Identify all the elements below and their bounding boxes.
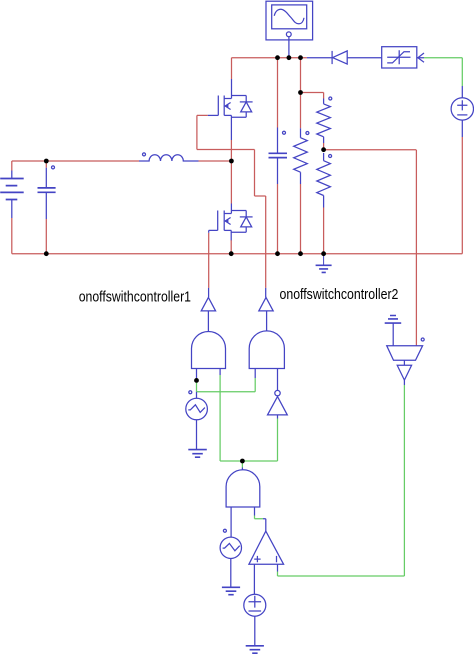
constant zero inverted ground: [385, 316, 402, 324]
capacitor C1 input: [38, 188, 56, 192]
node dot bottom rail ground: [321, 251, 326, 256]
wire lead sine source 1: [196, 392, 198, 450]
inductor L1: [139, 155, 199, 161]
wire lead R2: [323, 99, 325, 144]
wire R2 bottom to rail: [300, 184, 302, 254]
node dot bottom rail cap in: [44, 251, 49, 256]
wire battery top: [11, 161, 13, 171]
saturation block: [382, 47, 424, 68]
polarity marker input cap: [52, 166, 55, 169]
signal arrow up U1: [201, 297, 215, 311]
svg-text:onoffswitchcontroller2: onoffswitchcontroller2: [280, 286, 399, 303]
wire lead Q1 gate: [208, 114, 219, 116]
svg-text:onoffswithcontroller1: onoffswithcontroller1: [79, 288, 191, 305]
signal arrow down: [397, 365, 411, 380]
ground sine source 1: [188, 450, 207, 458]
polarity marker inductor: [143, 153, 146, 156]
resistor R2: [317, 104, 331, 137]
wire lead R3: [323, 153, 325, 208]
triangle wave source S2: [220, 537, 241, 558]
battery B1: [0, 179, 24, 200]
wire lead Q1 source: [230, 115, 232, 140]
node dot rail cap branch: [275, 55, 280, 60]
ground dc source V2: [246, 646, 264, 653]
wire lead and2 inputs: [255, 369, 277, 391]
wire lead and2 output: [265, 288, 268, 331]
node dot and3 output net: [240, 459, 245, 464]
wire output cap top branch: [277, 58, 279, 128]
wire lead sine source 2 bottom: [230, 559, 232, 588]
and gate U1: [192, 332, 226, 369]
wire lead not gate input: [277, 415, 279, 419]
wire divider mid node: [323, 143, 325, 150]
node dot bottom rail cap out: [275, 251, 280, 256]
comparator U5: [249, 531, 284, 564]
wire node to divider top: [301, 93, 324, 99]
wire lead Q2 source: [230, 230, 232, 240]
node dot bottom rail R1: [298, 251, 303, 256]
wire lead and3 input b: [255, 507, 266, 531]
polarity marker mux: [421, 338, 424, 341]
wire lead and1 output: [207, 288, 209, 331]
resistor R3: [317, 161, 331, 196]
mosfet Q2: [218, 211, 253, 233]
wire R3 bottom to rail: [323, 208, 325, 254]
wire lead and3 output: [241, 468, 243, 470]
wire input cap top: [45, 161, 47, 168]
wire lead mux output: [403, 360, 405, 365]
polarity marker sine source 2: [223, 529, 226, 532]
signal arrow up U2: [259, 297, 273, 311]
triangle wave source S1: [186, 398, 208, 420]
node dot rail resistor branch: [298, 55, 303, 60]
wire divider mid to right: [324, 149, 417, 151]
wire top rail node: [232, 57, 307, 59]
wire lead R1: [300, 128, 302, 184]
wire Q1 source to switch node: [230, 140, 232, 161]
ground divider: [316, 254, 332, 273]
polarity marker R3: [329, 155, 332, 158]
wire lead Q1 drain: [231, 79, 233, 99]
not gate U3: [268, 390, 288, 415]
wire lead source V2 bottom: [254, 616, 256, 645]
wire output cap bottom to rail: [277, 184, 279, 254]
wire Q1 gate path: [197, 115, 266, 288]
capacitor C2 output: [269, 153, 288, 157]
mosfet Q1: [218, 96, 252, 118]
node dot switch node: [229, 159, 234, 164]
polarity marker R2: [329, 97, 332, 100]
voltage source V1: [451, 98, 473, 120]
dc source V2: [244, 594, 266, 616]
wire right vertical to mux: [415, 150, 417, 346]
wire lead and1 inputs: [197, 369, 221, 381]
wire switch node to Q2 drain: [230, 161, 232, 204]
wire lead Q2 drain: [230, 204, 232, 214]
wire lead input cap: [45, 168, 47, 219]
node dot bottom rail Q2 source: [229, 251, 234, 256]
resistor R1: [294, 138, 308, 173]
wire lead battery: [11, 171, 13, 219]
and gate U4: [226, 470, 260, 507]
wire green comparator minus input net: [278, 385, 405, 576]
wire input cap bottom: [45, 219, 47, 254]
polarity marker R1: [306, 132, 309, 135]
wire lead mux input from constant: [392, 323, 394, 346]
node dot rail scope: [287, 55, 292, 60]
wire resistor branch top: [300, 58, 302, 93]
wire lead output cap: [277, 128, 279, 185]
wire lead diode D1: [307, 57, 424, 59]
wire lead comparator inputs: [254, 564, 277, 594]
node dot battery cap: [44, 159, 49, 164]
diode D1: [332, 51, 347, 64]
mux block: [387, 346, 423, 361]
wire bottom rail: [12, 253, 463, 255]
wire lead source V1: [461, 86, 463, 137]
wire green and1 input b net: [220, 375, 277, 461]
wire lead and3 input a: [230, 507, 232, 537]
polarity marker output cap: [283, 131, 286, 134]
wire green and3 output: [241, 461, 243, 468]
node dot carrier net: [194, 378, 199, 383]
wire source V1 to rail: [461, 137, 463, 254]
polarity marker sine source 1: [189, 391, 192, 394]
wire green and3 input b: [255, 516, 264, 519]
wire lead Q2 gate: [209, 230, 218, 232]
wire inductor to switch node: [199, 160, 232, 162]
wire top net battery to inductor: [12, 160, 139, 162]
wire green carrier to and gates: [197, 378, 256, 392]
wire Q2 source to rail: [230, 240, 232, 254]
wire lead arrow down output: [403, 380, 405, 385]
wire R1 top lead red part: [300, 93, 302, 129]
scope block: [266, 1, 313, 40]
wire green source V1 to saturation box: [424, 58, 462, 86]
node dot divider mid: [321, 147, 326, 152]
and gate U2: [249, 331, 284, 369]
wire top rail to Q1 drain: [231, 58, 233, 79]
wire scope probe: [288, 37, 290, 58]
wire Q2 gate path: [208, 233, 210, 288]
node dot divider top: [298, 90, 303, 95]
wire battery bottom: [11, 218, 13, 254]
ground sine source 2: [222, 587, 240, 594]
